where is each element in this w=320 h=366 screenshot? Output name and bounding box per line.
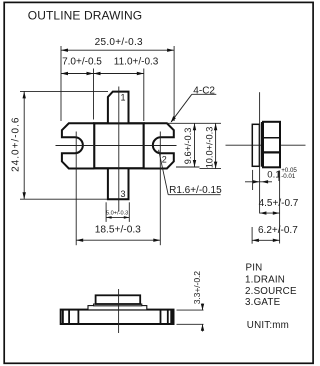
svg-text:-0.01: -0.01 (281, 173, 296, 180)
dim 0.1 extension right (body face) (278, 171, 280, 182)
dim 10.0 line (215, 123, 217, 168)
dim 3.3 line (202, 304, 204, 311)
front view: ceramic plate (88, 306, 147, 310)
svg-text:R1.6+/-0.15: R1.6+/-0.15 (169, 185, 222, 196)
svg-text:6.2+/-0.7: 6.2+/-0.7 (258, 225, 298, 236)
svg-text:9.6+/-0.3: 9.6+/-0.3 (183, 128, 193, 165)
dim 25.0 line (61, 49, 174, 51)
svg-text:0.1: 0.1 (267, 170, 280, 181)
side view: body internal line upper (263, 137, 280, 139)
side view: flange rect (252, 124, 259, 166)
dim 24.0 line (23, 91, 25, 199)
side view: body internal line lower (263, 151, 280, 153)
centerline horizontal (package axis) (56, 145, 177, 147)
svg-text:7.0+/-0.5: 7.0+/-0.5 (62, 57, 102, 68)
dim 5.0 extension lines (106, 202, 129, 222)
dim 7.0 / 11.0 extension lines (94, 69, 144, 122)
svg-text:3: 3 (121, 189, 126, 199)
R1.6 underline (168, 194, 220, 196)
svg-text:2: 2 (162, 155, 167, 165)
dim 24.0 extension lines (20, 91, 108, 199)
dim 7.0 line (61, 73, 94, 75)
dim 0.1 extension left (252, 170, 254, 190)
side view: lid edge thick bar (261, 122, 265, 167)
svg-text:25.0+/-0.3: 25.0+/-0.3 (95, 37, 143, 48)
dim 3.3 extension lines (177, 309, 204, 311)
dim 9.6 line (194, 123, 196, 167)
svg-text:UNIT:mm: UNIT:mm (247, 320, 289, 331)
side view: flange face reference line (259, 92, 261, 190)
front view: bar verticals left (62, 310, 64, 324)
4-C2 leader (171, 94, 192, 122)
dim 18.5 line (76, 239, 160, 241)
svg-text:10.0+/-0.3: 10.0+/-0.3 (204, 127, 214, 169)
svg-text:18.5+/-0.3: 18.5+/-0.3 (95, 225, 141, 236)
svg-text:2.SOURCE: 2.SOURCE (245, 286, 297, 297)
body rect redraw (over flange joins) (94, 123, 144, 168)
svg-text:OUTLINE DRAWING: OUTLINE DRAWING (28, 9, 142, 23)
slot centerline right (159, 132, 161, 246)
side view: body rect (263, 122, 280, 168)
dim 9.6 top extension line (167, 122, 221, 124)
top view: pin 1 tab (108, 92, 129, 124)
svg-text:11.0+/-0.3: 11.0+/-0.3 (114, 57, 159, 68)
svg-text:1: 1 (121, 92, 126, 102)
top view: left flange end with screw slot (62, 123, 94, 168)
centerline vertical (package axis) (56, 87, 177, 246)
dim 4.5 line (260, 212, 280, 214)
dim 6.2 line (252, 239, 280, 241)
svg-text:PIN: PIN (246, 263, 263, 274)
4-C2 underline (192, 93, 217, 95)
dim 4.5/6.2 shared extension (body right face) (279, 171, 281, 244)
dim 6.2 left extension (251, 227, 253, 244)
front view: lid (96, 295, 141, 304)
front view: bar verticals right (160, 310, 162, 324)
top view: ceramic body (94, 123, 144, 168)
front view: lid rim (94, 304, 142, 306)
svg-text:3.3+/-0.2: 3.3+/-0.2 (192, 271, 202, 305)
middle reference line lower part (259, 190, 261, 214)
dim 0.1 line and arrows (245, 181, 272, 183)
dim 9.6 bottom extension (176, 166, 200, 168)
dim 25.0 extension lines (61, 46, 174, 121)
svg-text:4-C2: 4-C2 (193, 86, 215, 97)
svg-text:4.5+/-0.7: 4.5+/-0.7 (259, 198, 299, 209)
side view: horizontal centerline (226, 144, 306, 146)
side view: centerline across flange (252, 144, 259, 146)
dim 11.0 line (94, 73, 144, 75)
svg-text:24.0+/-0.6: 24.0+/-0.6 (11, 117, 22, 172)
slot centerline left (75, 132, 77, 246)
top view: pin 3 tab (108, 168, 129, 199)
R1.6 leader (159, 150, 169, 195)
svg-text:5.0+/-0.3: 5.0+/-0.3 (106, 211, 128, 217)
top view: right flange end with screw slot (144, 123, 174, 168)
svg-text:3.GATE: 3.GATE (245, 297, 281, 308)
dim 10.0 bottom extension (200, 168, 222, 170)
front view: flange bar (61, 310, 174, 324)
svg-text:1.DRAIN: 1.DRAIN (245, 274, 285, 285)
front view: right end face thick (170, 310, 173, 324)
dim 5.0 line (106, 216, 129, 218)
front view: centerline (118, 289, 120, 333)
pin 2 label (161, 155, 169, 165)
